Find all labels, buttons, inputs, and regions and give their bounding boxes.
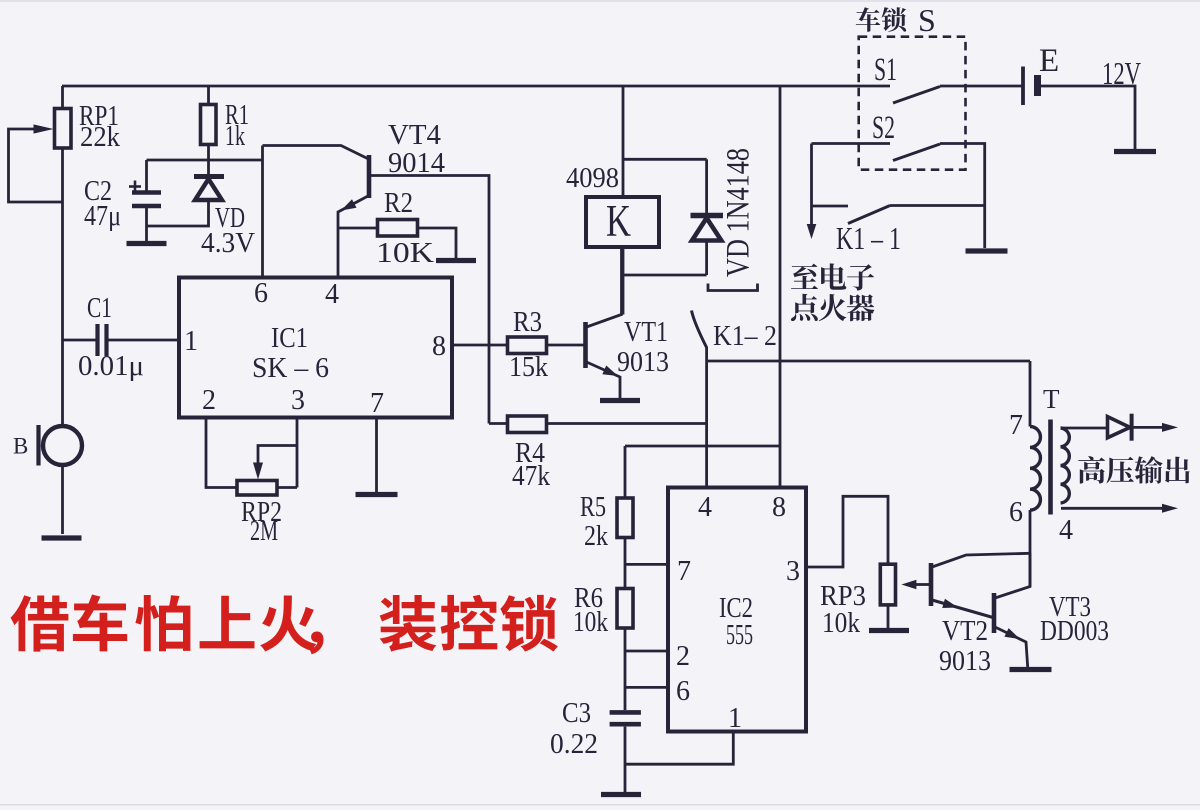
box lock S dashed	[859, 37, 966, 170]
wire RP1 wiper	[9, 129, 63, 202]
timer IC2 box	[668, 488, 806, 732]
capacitor C1 plate left	[95, 324, 99, 356]
wire IC2 pin1 return	[625, 732, 733, 765]
svg-text:22k: 22k	[80, 121, 120, 153]
svg-text:VT2: VT2	[942, 615, 988, 647]
wire R5 feed	[625, 445, 780, 448]
wire K bottom	[622, 247, 625, 315]
svg-text:6: 6	[254, 278, 268, 309]
wire B to ground	[61, 465, 64, 534]
svg-text:6: 6	[676, 676, 690, 707]
arrow RP1 wiper head	[34, 124, 54, 133]
microphone B element bar	[36, 425, 40, 466]
wire battery to 12V corner	[1041, 86, 1136, 149]
svg-text:1: 1	[728, 703, 742, 734]
svg-text:E: E	[1039, 43, 1059, 79]
diode VD2 cathode bar	[691, 213, 724, 218]
wire RP3 bottom	[887, 605, 890, 628]
svg-text:47μ: 47μ	[84, 200, 121, 232]
microphone B circle	[43, 426, 82, 465]
label lock S	[856, 7, 906, 32]
ground R2	[436, 258, 476, 263]
svg-text:9013: 9013	[617, 346, 669, 378]
wire R2 right	[418, 228, 457, 258]
diode VD zener triangle	[195, 179, 222, 200]
wire node C2-zener	[147, 159, 263, 162]
svg-text:2: 2	[676, 641, 690, 672]
svg-text:0.22: 0.22	[550, 728, 598, 760]
svg-text:15k: 15k	[509, 351, 548, 383]
svg-text:4: 4	[698, 492, 712, 523]
svg-text:S: S	[918, 2, 936, 38]
svg-text:C1: C1	[87, 292, 112, 324]
svg-text:10k: 10k	[573, 606, 608, 638]
svg-text:1k: 1k	[225, 120, 245, 152]
wire IC2 pin6 link	[625, 686, 668, 689]
arrow VT1 emitter head	[602, 365, 618, 376]
svg-text:8: 8	[772, 492, 786, 523]
op-amp IC1 box	[179, 278, 452, 418]
svg-text:12V: 12V	[1102, 55, 1141, 91]
svg-text:6: 6	[1009, 497, 1023, 528]
wire R1 top	[207, 86, 210, 105]
svg-text:S1: S1	[874, 52, 897, 88]
wire VT4 base	[263, 146, 368, 159]
wire C1 left	[63, 339, 97, 342]
wire RP1 top	[61, 86, 64, 109]
wire VT3 emitter	[995, 627, 1028, 667]
wire IC2 pin2 link	[625, 650, 668, 653]
svg-text:9013: 9013	[939, 645, 991, 677]
wire secondary top	[1061, 427, 1108, 430]
wire R4 left	[489, 422, 508, 425]
arrow VT3 emitter head	[1004, 628, 1020, 639]
svg-text:DD003: DD003	[1040, 615, 1109, 647]
wire R5-R6	[624, 538, 627, 589]
scan edge top	[0, 0, 1200, 2]
svg-text:7: 7	[677, 556, 691, 587]
wire T primary top	[1029, 361, 1032, 427]
wire VT4 emitter	[338, 196, 368, 278]
wire R3 right	[547, 344, 585, 347]
svg-text:7: 7	[1009, 410, 1023, 441]
wire VT2 emitter	[932, 600, 993, 618]
wire K to diode bottom	[623, 274, 707, 277]
wire IC1 pin7 down	[375, 418, 378, 493]
svg-text:3: 3	[291, 385, 305, 416]
svg-text:7: 7	[370, 388, 384, 419]
svg-text:8: 8	[432, 331, 446, 362]
resistor R4 body	[508, 416, 547, 433]
svg-text:3: 3	[786, 556, 800, 587]
svg-text:10k: 10k	[822, 607, 860, 639]
svg-text:4.3V: 4.3V	[201, 227, 255, 259]
arrow igniter head	[807, 224, 817, 239]
wire igniter drop	[810, 144, 813, 227]
switch K1-2 top contact	[708, 284, 758, 291]
wire C3 to ground	[624, 727, 627, 792]
svg-text:2: 2	[202, 385, 216, 416]
wire diode VD2 top lead	[705, 159, 708, 213]
svg-text:K1– 2: K1– 2	[713, 320, 777, 352]
svg-text:IC1: IC1	[271, 322, 308, 354]
capacitor C1 plate right	[104, 324, 108, 356]
resistor R1 body	[201, 105, 217, 145]
svg-text:2k: 2k	[584, 520, 608, 552]
wire RP2 right	[277, 486, 297, 489]
capacitor C2 plus sign	[129, 185, 141, 188]
wire R4 right	[547, 422, 707, 425]
diode D output cathode bar	[1130, 414, 1134, 441]
ground S2/K1-1	[966, 248, 1008, 253]
potentiometer RP3 body	[880, 564, 895, 605]
wire +12V top bus	[62, 85, 890, 88]
arrow RP2 wiper head	[253, 463, 263, 480]
potentiometer RP1 body	[55, 109, 72, 149]
svg-text:4: 4	[325, 279, 339, 310]
wire output top	[1133, 426, 1166, 429]
svg-text:4: 4	[1059, 515, 1073, 546]
wire IC1 pin2 down	[206, 418, 237, 488]
wire VT1 emitter	[587, 362, 621, 398]
svg-text:K: K	[606, 196, 631, 246]
svg-text:VD 1N4148: VD 1N4148	[721, 148, 757, 277]
capacitor C3 plate top	[610, 710, 641, 715]
switch S2 wire left	[812, 142, 891, 145]
ground VT1	[600, 398, 640, 403]
svg-text:SK – 6: SK – 6	[252, 352, 329, 384]
wire K top	[622, 86, 625, 197]
diode D output triangle	[1108, 417, 1131, 438]
wire diode VD2 bottom lead	[705, 241, 708, 275]
ground 12V rail	[1114, 149, 1156, 154]
arrow VT2 emitter head	[942, 599, 958, 608]
wire S2 right	[940, 144, 985, 249]
switch K1-1 blade	[848, 206, 890, 224]
ground IC1 pin7	[356, 492, 398, 497]
transistor VT2 base bar	[929, 563, 934, 606]
svg-text:C3: C3	[562, 697, 591, 729]
svg-text:2M: 2M	[250, 515, 278, 547]
battery E plate short	[1034, 75, 1041, 96]
wire C2 top lead	[145, 160, 148, 191]
diode VD zener cathode bar	[194, 174, 224, 179]
resistor R2 body	[378, 220, 418, 237]
wire IC2 pin7 link	[625, 563, 668, 566]
wire T primary bottom	[1029, 510, 1032, 587]
wire R5 top	[624, 446, 627, 498]
transistor VT3 base bar	[992, 593, 997, 633]
wire R2 left	[338, 227, 378, 230]
wire VD anode	[147, 202, 209, 226]
svg-text:R2: R2	[384, 187, 413, 219]
svg-text:555: 555	[726, 619, 753, 651]
svg-text:10K: 10K	[376, 237, 434, 269]
diode VD2 triangle	[692, 218, 721, 241]
red slogan text	[11, 595, 558, 655]
wire RP3 wiper	[916, 583, 931, 586]
label to igniter line1	[791, 263, 874, 290]
wire R1 bottom	[207, 145, 210, 175]
svg-text:B: B	[13, 434, 28, 459]
ground VT3	[1010, 667, 1052, 672]
svg-text:K1 – 1: K1 – 1	[836, 220, 901, 256]
transformer T primary coil	[1030, 427, 1040, 511]
svg-text:R5: R5	[580, 491, 606, 523]
switch K1-1 wire left	[812, 205, 849, 208]
svg-text:4098: 4098	[566, 162, 619, 194]
wire VT4 collector	[370, 176, 489, 424]
scan edge bottom	[0, 804, 1200, 806]
potentiometer RP2 body	[237, 481, 277, 496]
svg-text:S2: S2	[872, 110, 895, 146]
ground B	[42, 535, 82, 540]
ground C2	[127, 241, 167, 246]
arrow output top head	[1162, 423, 1178, 432]
wire IC2 pin3 out	[806, 496, 888, 567]
wire VT2 collector	[932, 553, 1030, 567]
switch S1 blade	[893, 87, 940, 104]
wire IC1 pin6 riser	[261, 146, 264, 278]
transformer T secondary coil	[1061, 428, 1070, 503]
svg-text:T: T	[1043, 384, 1060, 414]
label output	[1078, 456, 1190, 484]
wire IC1 pin8 to R3	[452, 344, 508, 347]
capacitor C2 plate bottom	[132, 204, 161, 209]
wire IC1 pin3 down	[296, 418, 299, 488]
switch K1-2 blade	[692, 311, 707, 348]
svg-text:1: 1	[184, 326, 198, 357]
wire VT3 collector	[995, 553, 1030, 598]
relay K box	[586, 197, 659, 247]
arrow VT4 emitter head	[341, 199, 356, 210]
arrow RP3 wiper head	[901, 580, 916, 590]
battery E plate long	[1021, 67, 1025, 106]
wire K1-2 down to IC2 pin4	[705, 347, 708, 488]
wire to transformer primary	[707, 360, 1030, 363]
capacitor C2 plate top	[132, 190, 161, 195]
svg-text:9014: 9014	[388, 147, 445, 179]
wire C2 bottom lead	[145, 208, 148, 242]
resistor R5 body	[617, 498, 633, 538]
transformer T core	[1048, 420, 1053, 515]
resistor R3 body	[508, 337, 547, 354]
svg-text:0.01μ: 0.01μ	[78, 350, 144, 382]
wire VT1 collector	[587, 247, 622, 327]
transistor VT1 base bar	[583, 322, 588, 368]
wire RP1 bottom to B	[61, 148, 64, 426]
wire bus to IC2 pin8	[779, 86, 782, 488]
wire RP2 wiper	[258, 446, 297, 465]
capacitor C3 plate bottom	[610, 722, 641, 727]
wire K1-1 right	[890, 204, 985, 207]
transistor VT4 base bar	[367, 155, 372, 198]
ground RP3	[869, 628, 909, 633]
wire K to diode top	[623, 158, 707, 161]
label to igniter line2	[791, 294, 874, 321]
wire R6-C3	[624, 628, 627, 710]
wire C1 right	[108, 339, 179, 342]
switch S2 blade	[893, 144, 940, 161]
svg-text:VT1: VT1	[624, 316, 668, 348]
arrow output bottom head	[1162, 504, 1178, 513]
wire bus to battery	[940, 85, 1022, 88]
resistor R6 body	[617, 589, 633, 629]
svg-text:R3: R3	[513, 306, 542, 338]
wire secondary bottom	[1061, 507, 1166, 510]
ground C3/IC2	[601, 792, 641, 797]
svg-text:47k: 47k	[512, 460, 550, 492]
